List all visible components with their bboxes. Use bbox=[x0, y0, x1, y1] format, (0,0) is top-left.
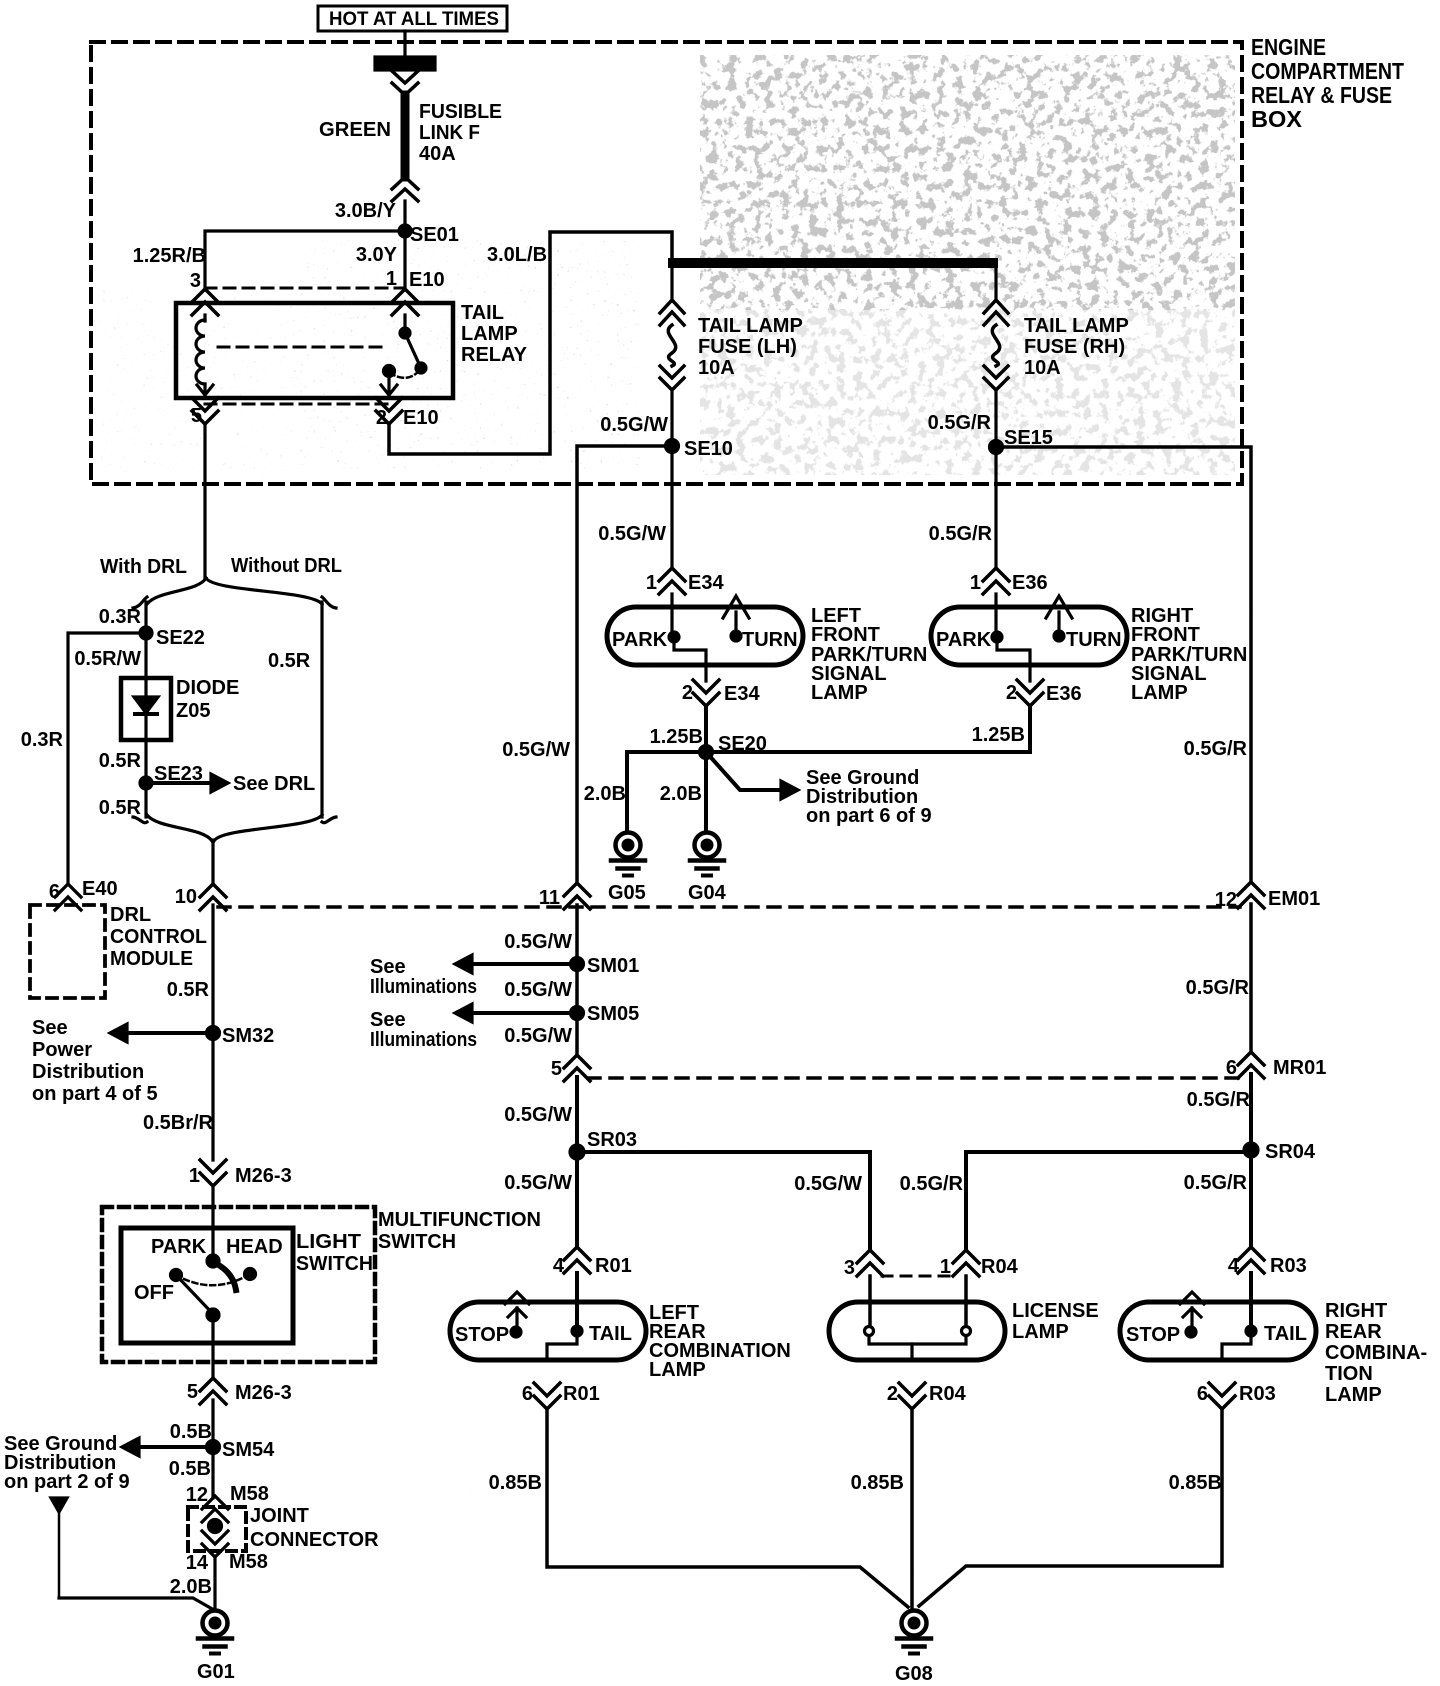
stop feed chevron (right rear) bbox=[1180, 1292, 1204, 1327]
joint connector chevron (pin 14) bbox=[202, 1531, 228, 1557]
svg-text:14: 14 bbox=[186, 1552, 209, 1574]
svg-text:0.5R: 0.5R bbox=[99, 797, 142, 819]
svg-text:LAMP: LAMP bbox=[649, 1359, 706, 1381]
label: license lamp bbox=[1012, 1300, 1099, 1343]
svg-text:MR01: MR01 bbox=[1273, 1057, 1326, 1079]
svg-text:5: 5 bbox=[551, 1058, 562, 1080]
svg-text:FUSE (LH): FUSE (LH) bbox=[698, 336, 797, 358]
svg-text:0.5R: 0.5R bbox=[167, 979, 210, 1001]
svg-text:0.5Br/R: 0.5Br/R bbox=[143, 1112, 214, 1134]
svg-text:SE01: SE01 bbox=[410, 224, 459, 246]
light switch box bbox=[121, 1228, 293, 1343]
connector R01 chevron (pin 6) bbox=[534, 1383, 560, 1409]
wire connectors into license lamp bbox=[870, 1276, 966, 1326]
svg-text:LIGHT: LIGHT bbox=[296, 1231, 361, 1253]
svg-text:Illuminations: Illuminations bbox=[370, 976, 477, 998]
svg-text:10A: 10A bbox=[1024, 357, 1061, 379]
svg-text:R04: R04 bbox=[929, 1383, 967, 1405]
svg-text:RIGHT: RIGHT bbox=[1325, 1300, 1387, 1322]
svg-text:0.3R: 0.3R bbox=[21, 729, 64, 751]
svg-text:3: 3 bbox=[844, 1257, 855, 1279]
connector R04 chevron (pin 2) bbox=[899, 1383, 925, 1409]
wire SE15 right then down (rear feed) bbox=[996, 447, 1251, 882]
label: see power distribution bbox=[32, 1017, 158, 1105]
wire connector to left rear lamp bbox=[575, 1273, 579, 1331]
wire ground distribution tie bbox=[59, 1598, 214, 1610]
svg-text:COMBINA-: COMBINA- bbox=[1325, 1342, 1427, 1364]
svg-text:1: 1 bbox=[970, 572, 981, 594]
wire bar to RH fuse bbox=[994, 268, 997, 300]
tail lamp fuse LH 10A bbox=[660, 300, 684, 390]
label DIODE Z05 bbox=[176, 677, 239, 722]
wire EM01 to MR01 bbox=[1249, 904, 1253, 1052]
connector E36 chevron (pin 1) bbox=[983, 568, 1009, 594]
left front park/turn signal lamp E34 bbox=[607, 607, 803, 681]
svg-text:1.25R/B: 1.25R/B bbox=[133, 245, 206, 267]
ground distribution reference stub bbox=[51, 1498, 67, 1598]
license lamp bbox=[829, 1302, 1005, 1360]
svg-text:R04: R04 bbox=[981, 1256, 1019, 1278]
svg-text:SR03: SR03 bbox=[587, 1129, 637, 1151]
svg-text:3.0B/Y: 3.0B/Y bbox=[335, 200, 397, 222]
svg-text:HOT AT ALL TIMES: HOT AT ALL TIMES bbox=[329, 9, 499, 30]
svg-text:3.0L/B: 3.0L/B bbox=[487, 244, 547, 266]
right front park/turn signal lamp E36 bbox=[931, 607, 1127, 681]
svg-text:MODULE: MODULE bbox=[110, 948, 193, 970]
svg-text:on part 4 of 5: on part 4 of 5 bbox=[32, 1083, 158, 1105]
svg-text:E34: E34 bbox=[688, 572, 724, 594]
svg-text:JOINT: JOINT bbox=[250, 1505, 309, 1527]
node SM54 bbox=[207, 1439, 276, 1461]
label: light switch bbox=[296, 1231, 373, 1275]
wire SR03 to license lamp pin 3 bbox=[577, 1152, 870, 1250]
svg-text:3.0Y: 3.0Y bbox=[356, 244, 398, 266]
svg-text:G05: G05 bbox=[608, 882, 646, 904]
wire switch common down bbox=[211, 1315, 214, 1378]
svg-text:LAMP: LAMP bbox=[1012, 1321, 1069, 1343]
svg-text:OFF: OFF bbox=[134, 1282, 174, 1304]
svg-text:0.5G/W: 0.5G/W bbox=[794, 1173, 862, 1195]
connector R04 chevron (pin 3) bbox=[857, 1250, 883, 1276]
turn signal feed chevron (E36) bbox=[1046, 596, 1072, 636]
svg-text:PARK: PARK bbox=[612, 629, 668, 651]
svg-text:R03: R03 bbox=[1239, 1383, 1276, 1405]
svg-text:1.25B: 1.25B bbox=[972, 724, 1025, 746]
svg-text:1: 1 bbox=[189, 1165, 200, 1187]
svg-text:E36: E36 bbox=[1046, 683, 1082, 705]
svg-text:1: 1 bbox=[940, 1256, 951, 1278]
svg-text:TAIL: TAIL bbox=[589, 1323, 632, 1345]
svg-text:GREEN: GREEN bbox=[319, 119, 391, 141]
node SR04 bbox=[1244, 1141, 1316, 1163]
svg-text:3: 3 bbox=[190, 270, 201, 292]
svg-text:STOP: STOP bbox=[455, 1324, 509, 1346]
DRL option split braces (top) bbox=[133, 578, 336, 608]
thick bus bar to fuses bbox=[668, 258, 998, 268]
svg-text:LAMP: LAMP bbox=[461, 323, 518, 345]
node SE01 bbox=[399, 224, 459, 246]
svg-text:BOX: BOX bbox=[1251, 106, 1303, 132]
node SE20 bbox=[700, 733, 767, 759]
svg-text:6: 6 bbox=[522, 1383, 533, 1405]
connector R01 chevron (pin 4) bbox=[564, 1247, 590, 1273]
svg-text:E34: E34 bbox=[724, 683, 760, 705]
label: tail lamp fuse (LH) 10A bbox=[698, 315, 803, 379]
svg-text:FUSIBLE: FUSIBLE bbox=[419, 101, 502, 123]
svg-text:on part 2 of 9: on part 2 of 9 bbox=[4, 1471, 130, 1493]
svg-text:Without DRL: Without DRL bbox=[231, 555, 342, 577]
label: engine compartment relay & fuse box bbox=[1251, 34, 1404, 132]
label: see ground distribution part 6 bbox=[806, 767, 932, 827]
svg-text:SM54: SM54 bbox=[222, 1439, 275, 1461]
svg-text:PARK: PARK bbox=[151, 1236, 207, 1258]
svg-text:0.5G/W: 0.5G/W bbox=[598, 523, 666, 545]
svg-text:LAMP: LAMP bbox=[1131, 682, 1188, 704]
wire SE20 left to G05 branch bbox=[627, 752, 706, 832]
wire SE10 down to E34 bbox=[670, 446, 673, 568]
svg-text:SWITCH: SWITCH bbox=[296, 1253, 373, 1275]
wire from HOT box to fusible link bbox=[403, 31, 406, 58]
connector E10 dashed line (top) bbox=[205, 287, 405, 290]
wire Without-DRL branch down bbox=[320, 602, 323, 817]
svg-text:0.5G/R: 0.5G/R bbox=[1186, 977, 1250, 999]
svg-text:RELAY & FUSE: RELAY & FUSE bbox=[1251, 82, 1392, 108]
wire license lamp to ground G08 bbox=[910, 1409, 914, 1608]
diode Z05 box bbox=[121, 678, 171, 740]
HOT AT ALL TIMES box bbox=[318, 6, 507, 31]
turn signal feed chevron (E34) bbox=[723, 596, 749, 636]
connector E10 dashed line (bottom) bbox=[205, 403, 389, 406]
wire joint connector to ground G01 bbox=[213, 1557, 216, 1610]
svg-text:COMPARTMENT: COMPARTMENT bbox=[1251, 58, 1404, 84]
label: right rear combination lamp bbox=[1325, 1300, 1427, 1406]
svg-text:11: 11 bbox=[539, 887, 560, 909]
connector chevron 10 bbox=[200, 884, 226, 910]
svg-text:0.5B: 0.5B bbox=[169, 1458, 211, 1480]
wire SR04 to license lamp pin 1 bbox=[966, 1152, 1251, 1250]
pin 1 connector chevron bbox=[392, 289, 418, 315]
wire fusible link to SE01 bbox=[403, 201, 406, 231]
svg-text:1: 1 bbox=[646, 572, 657, 594]
wire connector 5 to SR03 bbox=[575, 1077, 579, 1152]
relay coil bbox=[196, 315, 213, 395]
svg-text:LINK F: LINK F bbox=[419, 122, 480, 144]
svg-text:LAMP: LAMP bbox=[1325, 1384, 1382, 1406]
svg-text:HEAD: HEAD bbox=[226, 1236, 283, 1258]
connector E34 chevron (pin 1) bbox=[659, 568, 685, 594]
label: right front park/turn signal lamp bbox=[1131, 605, 1247, 704]
svg-text:STOP: STOP bbox=[1126, 1324, 1180, 1346]
arrow SM05 to illuminations bbox=[455, 1004, 577, 1022]
svg-text:RELAY: RELAY bbox=[461, 344, 528, 366]
svg-text:10A: 10A bbox=[698, 357, 735, 379]
label: see ground distribution part 2 bbox=[4, 1433, 130, 1493]
svg-text:PARK: PARK bbox=[936, 629, 992, 651]
svg-text:0.5G/W: 0.5G/W bbox=[504, 979, 572, 1001]
wire connector 10 to SM32 bbox=[211, 905, 214, 1033]
svg-text:E36: E36 bbox=[1012, 572, 1048, 594]
svg-text:10: 10 bbox=[175, 886, 197, 908]
node SM05 bbox=[571, 1003, 640, 1025]
wire SE01 to relay pin 1 bbox=[403, 231, 406, 290]
label: DRL control module bbox=[110, 904, 207, 970]
arrow SM01 to illuminations bbox=[455, 955, 577, 973]
pin 2 connector chevron bbox=[376, 398, 402, 424]
arrow SM54 to ground distribution bbox=[122, 1438, 213, 1456]
connector E36 chevron (pin 2) bbox=[1017, 680, 1043, 706]
wire connector to lamp E36 bbox=[994, 594, 997, 637]
svg-text:E10: E10 bbox=[409, 269, 445, 291]
svg-text:0.5G/R: 0.5G/R bbox=[1184, 1172, 1248, 1194]
svg-text:DRL: DRL bbox=[110, 904, 151, 926]
relay internal dashed link bbox=[218, 346, 382, 349]
svg-text:2.0B: 2.0B bbox=[170, 1576, 212, 1598]
engine compartment relay & fuse box (dashed) bbox=[91, 42, 1242, 484]
label: joint connector bbox=[250, 1505, 379, 1551]
svg-text:R03: R03 bbox=[1270, 1255, 1307, 1277]
svg-text:0.5R: 0.5R bbox=[268, 650, 311, 672]
svg-text:TAIL: TAIL bbox=[461, 302, 504, 324]
svg-text:12: 12 bbox=[1215, 889, 1237, 911]
svg-text:0.5G/W: 0.5G/W bbox=[504, 1104, 572, 1126]
dashed boundary line (interior to rear) bbox=[588, 1076, 1238, 1080]
svg-text:2.0B: 2.0B bbox=[584, 783, 626, 805]
wire merge down to connector 10 bbox=[211, 840, 214, 884]
svg-text:0.5G/W: 0.5G/W bbox=[504, 1172, 572, 1194]
wire right rear lamp to ground bus bbox=[919, 1409, 1222, 1606]
svg-text:SM32: SM32 bbox=[222, 1025, 274, 1047]
node SE15 bbox=[990, 427, 1053, 454]
svg-text:0.5G/R: 0.5G/R bbox=[1187, 1089, 1251, 1111]
light switch contacts bbox=[171, 1255, 256, 1321]
svg-text:Power: Power bbox=[32, 1039, 92, 1061]
svg-text:0.5G/W: 0.5G/W bbox=[504, 1025, 572, 1047]
wire LH fuse to SE10 bbox=[670, 390, 673, 446]
svg-text:5: 5 bbox=[187, 1381, 198, 1403]
svg-text:With DRL: With DRL bbox=[100, 556, 187, 578]
ground G01 bbox=[197, 1611, 235, 1684]
svg-text:2: 2 bbox=[887, 1383, 898, 1405]
pin 5 connector chevron bbox=[192, 398, 218, 424]
wire into light switch bbox=[211, 1186, 214, 1261]
joint connector dashed box bbox=[188, 1507, 246, 1551]
wire SE20 down to G04 bbox=[704, 752, 708, 832]
ground G08 bbox=[895, 1611, 933, 1686]
connector M26-3 chevron (pin 1) bbox=[200, 1160, 226, 1186]
svg-text:G01: G01 bbox=[197, 1661, 235, 1683]
label: left front park/turn signal lamp bbox=[811, 605, 927, 704]
svg-text:See: See bbox=[370, 956, 406, 978]
node SR03 bbox=[570, 1129, 637, 1159]
fusible link F 40A bbox=[375, 57, 435, 201]
ground G04 bbox=[688, 833, 727, 905]
svg-text:R01: R01 bbox=[595, 1255, 632, 1277]
wire diode to SE23 bbox=[144, 740, 147, 817]
diode Z05 symbol bbox=[134, 678, 158, 740]
svg-text:SM01: SM01 bbox=[587, 955, 639, 977]
svg-text:0.5G/R: 0.5G/R bbox=[928, 412, 992, 434]
wire relay pin 2 to fuses feed bbox=[389, 232, 672, 454]
svg-text:TURN: TURN bbox=[1066, 629, 1122, 651]
svg-text:M26-3: M26-3 bbox=[235, 1382, 292, 1404]
multifunction switch dashed box bbox=[102, 1207, 375, 1362]
right rear combination lamp bbox=[1120, 1302, 1316, 1360]
value label FUSIBLE LINK F 40A bbox=[419, 101, 502, 165]
svg-text:LICENSE: LICENSE bbox=[1012, 1300, 1099, 1322]
svg-text:0.5G/R: 0.5G/R bbox=[1184, 738, 1248, 760]
svg-text:G04: G04 bbox=[688, 882, 727, 904]
label: tail lamp fuse (RH) 10A bbox=[1024, 315, 1129, 379]
svg-text:E10: E10 bbox=[403, 407, 439, 429]
wire SM54 to joint connector bbox=[211, 1447, 214, 1498]
svg-text:M26-3: M26-3 bbox=[235, 1165, 292, 1187]
pin 3 connector chevron bbox=[192, 289, 218, 315]
wire SM05 to connector 5 bbox=[575, 1013, 579, 1055]
wire SE01 left branch to pin 3 bbox=[205, 231, 405, 290]
connector E34 chevron (pin 2) bbox=[693, 680, 719, 706]
svg-text:SE22: SE22 bbox=[156, 627, 205, 649]
svg-text:TION: TION bbox=[1325, 1363, 1373, 1385]
svg-text:0.5R: 0.5R bbox=[99, 750, 142, 772]
wire SR03 to left rear lamp bbox=[575, 1152, 579, 1247]
svg-text:G08: G08 bbox=[895, 1663, 933, 1685]
svg-text:on part 6 of 9: on part 6 of 9 bbox=[806, 805, 932, 827]
svg-text:6: 6 bbox=[1197, 1383, 1208, 1405]
wire SE22 left to E40 branch bbox=[68, 633, 146, 883]
svg-text:0.3R: 0.3R bbox=[99, 606, 142, 628]
wire chevron 11 to SM01 bbox=[575, 905, 579, 964]
svg-text:0.85B: 0.85B bbox=[851, 1472, 904, 1494]
svg-text:ENGINE: ENGINE bbox=[1251, 34, 1326, 60]
svg-text:CONNECTOR: CONNECTOR bbox=[250, 1529, 379, 1551]
svg-text:0.5G/W: 0.5G/W bbox=[600, 414, 668, 436]
svg-text:0.5R/W: 0.5R/W bbox=[74, 648, 141, 670]
svg-text:LAMP: LAMP bbox=[811, 682, 868, 704]
svg-text:SE10: SE10 bbox=[684, 438, 733, 460]
wire RH fuse to SE15 bbox=[994, 390, 997, 447]
left rear combination lamp bbox=[450, 1302, 646, 1360]
wire SE20 right from E36 bbox=[706, 706, 1030, 752]
wire SM01 to SM05 bbox=[575, 964, 579, 1013]
connector E40 chevron bbox=[55, 884, 81, 910]
svg-text:0.5G/R: 0.5G/R bbox=[900, 1173, 964, 1195]
svg-text:6: 6 bbox=[1226, 1057, 1237, 1079]
svg-text:M58: M58 bbox=[230, 1483, 269, 1505]
label: see illuminations (SM05) bbox=[370, 1009, 477, 1051]
svg-text:SR04: SR04 bbox=[1265, 1141, 1316, 1163]
stop feed chevron (left rear) bbox=[505, 1292, 529, 1327]
svg-text:E40: E40 bbox=[82, 878, 118, 900]
label: see illuminations (SM01) bbox=[370, 956, 477, 998]
wire connector to right rear lamp bbox=[1249, 1273, 1253, 1331]
svg-text:DIODE: DIODE bbox=[176, 677, 239, 699]
joint connector chevron (pin 12) bbox=[202, 1496, 228, 1522]
svg-text:EM01: EM01 bbox=[1268, 888, 1320, 910]
svg-text:2.0B: 2.0B bbox=[660, 783, 702, 805]
connector R04 dashed link bbox=[882, 1275, 955, 1278]
wire relay pin 5 down to DRL split bbox=[203, 424, 206, 578]
svg-text:0.5B: 0.5B bbox=[170, 1421, 212, 1443]
svg-text:0.5G/R: 0.5G/R bbox=[929, 523, 993, 545]
svg-text:0.5G/W: 0.5G/W bbox=[504, 931, 572, 953]
connector R03 chevron (pin 6) bbox=[1209, 1383, 1235, 1409]
svg-text:40A: 40A bbox=[419, 143, 456, 165]
svg-text:MULTIFUNCTION: MULTIFUNCTION bbox=[378, 1209, 541, 1231]
connector chevron 11 bbox=[564, 883, 590, 909]
connector M26-3 chevron (pin 5) bbox=[200, 1378, 226, 1404]
node SE10 bbox=[666, 438, 733, 460]
arrow SE23 to See DRL bbox=[146, 773, 315, 795]
svg-text:REAR: REAR bbox=[1325, 1321, 1382, 1343]
ground G05 bbox=[608, 833, 646, 905]
wire SE10 left then down (rear feed) bbox=[577, 446, 672, 883]
svg-text:Distribution: Distribution bbox=[32, 1061, 144, 1083]
svg-text:SM05: SM05 bbox=[587, 1003, 639, 1025]
connector R04 chevron (pin 1) bbox=[953, 1250, 979, 1276]
svg-text:TURN: TURN bbox=[742, 629, 798, 651]
svg-text:R01: R01 bbox=[563, 1383, 600, 1405]
node SE23 bbox=[140, 763, 203, 789]
svg-text:FRONT: FRONT bbox=[811, 624, 880, 646]
svg-text:0.85B: 0.85B bbox=[489, 1472, 542, 1494]
svg-text:0.5G/W: 0.5G/W bbox=[502, 739, 570, 761]
wire to SM54 bbox=[211, 1400, 214, 1447]
svg-text:FRONT: FRONT bbox=[1131, 624, 1200, 646]
connector EM01 chevron bbox=[1238, 882, 1264, 908]
svg-text:CONTROL: CONTROL bbox=[110, 926, 207, 948]
label: tail lamp relay bbox=[461, 302, 528, 366]
connector R03 chevron (pin 4) bbox=[1238, 1247, 1264, 1273]
wire connector to lamp bbox=[670, 594, 673, 637]
wire lamp to SE20 bbox=[704, 706, 708, 752]
connector chevron 5 bbox=[564, 1055, 590, 1081]
relay switch contacts bbox=[381, 315, 426, 395]
svg-text:FUSE (RH): FUSE (RH) bbox=[1024, 336, 1125, 358]
svg-text:M58: M58 bbox=[229, 1551, 268, 1573]
wire bar to LH fuse bbox=[670, 268, 673, 300]
label: left rear combination lamp bbox=[649, 1302, 791, 1381]
wire SR04 to right rear lamp bbox=[1249, 1152, 1253, 1247]
svg-text:TAIL LAMP: TAIL LAMP bbox=[698, 315, 803, 337]
svg-text:Z05: Z05 bbox=[176, 700, 210, 722]
wire SM32 to light switch bbox=[211, 1033, 214, 1160]
DRL option merge braces (bottom) bbox=[133, 815, 336, 841]
svg-text:0.85B: 0.85B bbox=[1169, 1472, 1222, 1494]
wire SE15 down to E36 bbox=[994, 447, 997, 568]
label: multifunction switch bbox=[378, 1209, 541, 1253]
DRL control module dashed box bbox=[30, 905, 105, 998]
connector MR01 chevron bbox=[1238, 1052, 1264, 1078]
svg-text:1.25B: 1.25B bbox=[650, 726, 703, 748]
wire MR01 to SR04 bbox=[1249, 1074, 1253, 1152]
arrow SM32 to power distribution bbox=[110, 1024, 213, 1042]
arrow SE20 to ground distribution part 6 bbox=[706, 752, 798, 799]
svg-text:See: See bbox=[370, 1009, 406, 1031]
svg-text:See DRL: See DRL bbox=[233, 773, 315, 795]
svg-text:SWITCH: SWITCH bbox=[378, 1231, 456, 1253]
wire With-DRL branch down bbox=[144, 602, 147, 678]
svg-text:TAIL LAMP: TAIL LAMP bbox=[1024, 315, 1129, 337]
node SM01 bbox=[571, 955, 640, 977]
tail lamp relay box bbox=[176, 303, 453, 398]
node SE22 bbox=[140, 627, 205, 649]
dashed boundary line (fuse box to interior) bbox=[218, 905, 1240, 909]
node SM32 bbox=[207, 1025, 275, 1047]
svg-text:TAIL: TAIL bbox=[1264, 1323, 1307, 1345]
svg-text:See: See bbox=[32, 1017, 68, 1039]
svg-text:12: 12 bbox=[186, 1484, 208, 1506]
svg-text:Illuminations: Illuminations bbox=[370, 1029, 477, 1051]
